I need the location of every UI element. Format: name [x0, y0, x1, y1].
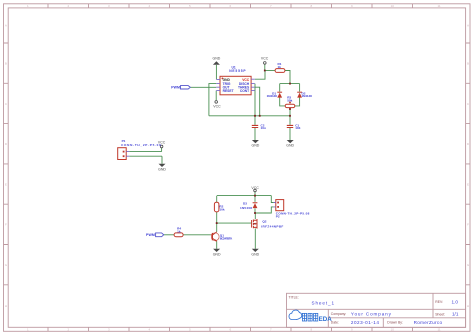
svg-text:VCC: VCC	[261, 57, 269, 61]
svg-text:2023-01-14: 2023-01-14	[351, 320, 379, 325]
svg-text:CONT: CONT	[240, 89, 249, 93]
svg-text:B: B	[467, 62, 469, 66]
svg-text:GND: GND	[213, 57, 221, 61]
svg-text:1.0: 1.0	[452, 299, 459, 304]
svg-text:GND: GND	[286, 144, 294, 148]
svg-text:11: 11	[437, 328, 440, 332]
svg-text:PWM: PWM	[146, 233, 155, 237]
svg-text:H: H	[467, 304, 469, 308]
svg-text:VCC: VCC	[251, 186, 259, 190]
svg-text:10n: 10n	[261, 126, 266, 130]
svg-text:P1: P1	[122, 139, 126, 143]
svg-text:VCC: VCC	[213, 105, 221, 109]
svg-text:CONN-TH_2P-P5.08: CONN-TH_2P-P5.08	[276, 212, 310, 216]
svg-text:CONN-TH_2P-P5.08: CONN-TH_2P-P5.08	[121, 143, 161, 147]
svg-text:REV:: REV:	[435, 300, 443, 304]
svg-text:F: F	[5, 223, 7, 227]
svg-text:Sheet:: Sheet:	[435, 312, 445, 316]
svg-text:10k: 10k	[219, 207, 224, 211]
svg-text:1N4148: 1N4148	[267, 94, 278, 98]
svg-text:1N4148: 1N4148	[302, 94, 313, 98]
svg-text:B: B	[5, 62, 7, 66]
svg-text:Drawn By:: Drawn By:	[387, 321, 403, 325]
svg-text:H: H	[5, 304, 7, 308]
svg-text:RomerZurco: RomerZurco	[414, 320, 443, 325]
svg-text:1/1: 1/1	[452, 312, 459, 317]
svg-text:BC547BTA: BC547BTA	[220, 237, 233, 241]
svg-text:GND: GND	[158, 167, 166, 171]
svg-text:GND: GND	[252, 144, 260, 148]
svg-text:F: F	[467, 223, 469, 227]
svg-text:PWM: PWM	[171, 86, 180, 90]
svg-text:Date:: Date:	[331, 321, 339, 325]
svg-text:EDA: EDA	[319, 316, 333, 323]
svg-text:E: E	[5, 182, 7, 186]
svg-text:1k: 1k	[278, 65, 282, 69]
svg-text:P2: P2	[276, 215, 280, 219]
svg-text:10: 10	[391, 328, 395, 332]
svg-text:GND: GND	[251, 252, 259, 256]
svg-text:Q2: Q2	[262, 220, 266, 224]
svg-text:D3: D3	[243, 202, 247, 206]
svg-text:E: E	[467, 182, 469, 186]
svg-text:IRFZ44NPBF: IRFZ44NPBF	[261, 224, 283, 228]
svg-text:A: A	[5, 24, 7, 28]
svg-text:10: 10	[391, 4, 395, 8]
svg-text:Your Company: Your Company	[351, 312, 392, 317]
svg-text:Company:: Company:	[331, 312, 347, 316]
svg-text:NE555P: NE555P	[229, 69, 246, 73]
svg-text:103: 103	[295, 126, 300, 130]
svg-text:TITLE:: TITLE:	[289, 295, 299, 299]
svg-text:1k: 1k	[177, 229, 181, 233]
svg-text:A: A	[467, 24, 469, 28]
svg-text:RESET: RESET	[223, 89, 234, 93]
svg-text:11: 11	[437, 4, 440, 8]
svg-text:50k: 50k	[287, 98, 292, 102]
svg-text:Sheet_1: Sheet_1	[312, 300, 335, 305]
svg-text:1N5408: 1N5408	[240, 206, 252, 210]
svg-text:GND: GND	[213, 252, 221, 256]
